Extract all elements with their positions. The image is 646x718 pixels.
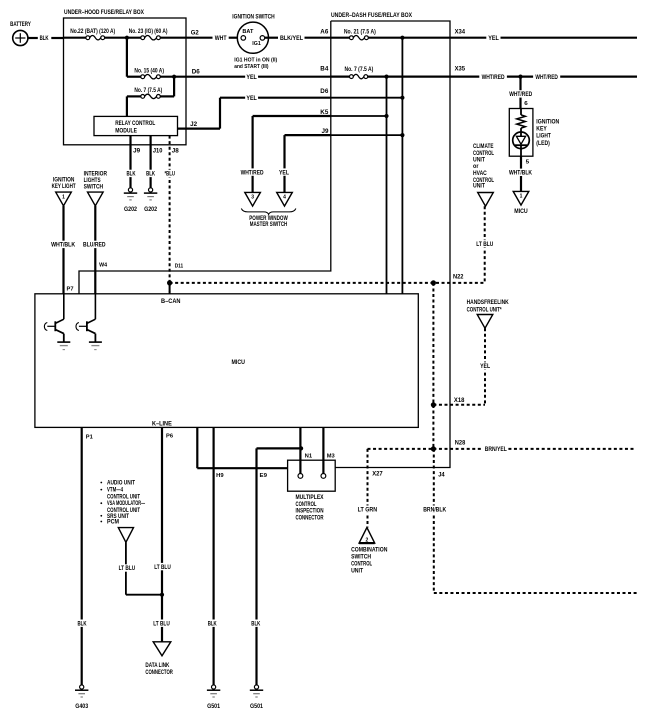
ground G501 (E9)	[254, 685, 258, 689]
fuse No.22 (BAT) (120 A)	[86, 36, 90, 40]
svg-text:UNIT: UNIT	[473, 184, 485, 190]
wire junction down to LED box	[519, 77, 521, 109]
wire fuse 21 to pin X34	[368, 37, 449, 39]
svg-text:D6: D6	[192, 69, 201, 76]
wire color BRN/BLK	[422, 506, 447, 513]
svg-text:G501: G501	[250, 704, 264, 710]
svg-text:WHT: WHT	[215, 35, 227, 42]
svg-text:LIGHT: LIGHT	[536, 134, 551, 140]
svg-text:HVAC: HVAC	[473, 171, 487, 177]
svg-text:No. 15 (40 A): No. 15 (40 A)	[134, 68, 164, 74]
junction D6 node	[400, 96, 404, 100]
wire fuse 7 left side	[127, 95, 141, 97]
wire fuse 22 to fuse 23	[105, 37, 141, 39]
svg-text:WHT/RED: WHT/RED	[535, 74, 558, 81]
wire color WHT/BLK below LED	[508, 169, 534, 176]
wire A6 to fuse 21	[331, 37, 350, 39]
svg-text:*BLU: *BLU	[164, 171, 175, 178]
svg-text:G2: G2	[191, 30, 200, 37]
svg-text:RELAY CONTROL: RELAY CONTROL	[115, 121, 155, 127]
svg-text:WHT/BLK: WHT/BLK	[51, 242, 75, 249]
fuse No.15 (40 A)	[141, 75, 145, 79]
connector triangle 3	[245, 192, 261, 206]
brace power window master switch	[241, 209, 296, 215]
svg-text:J8: J8	[172, 148, 180, 154]
svg-text:G403: G403	[75, 704, 89, 710]
wire WHT/RED continue to right	[560, 75, 637, 77]
svg-text:and START (III): and START (III)	[234, 64, 268, 70]
ground G202 (J9)	[128, 188, 132, 192]
svg-text:3: 3	[251, 195, 254, 201]
junction fuse 15 output node	[172, 75, 176, 79]
wire color YEL on J9 wire	[278, 168, 290, 175]
svg-text:CONTROL: CONTROL	[296, 502, 317, 508]
svg-text:BLK/YEL: BLK/YEL	[280, 35, 303, 42]
svg-text:5: 5	[526, 160, 530, 166]
wire M3 into connector	[322, 427, 324, 473]
wire to fuse 15	[127, 76, 141, 78]
junction E9 node on N1 wire	[299, 446, 303, 450]
svg-text:N1: N1	[305, 454, 313, 460]
svg-text:CONTROL: CONTROL	[473, 151, 494, 157]
wire BRN/YEL dashed right	[433, 448, 482, 450]
wire junction down to fuse 7 row	[173, 77, 175, 97]
wire B4 to fuse 7	[331, 75, 350, 77]
svg-text:No. 7 (7.5 A): No. 7 (7.5 A)	[345, 67, 374, 73]
svg-text:1: 1	[62, 194, 65, 200]
svg-text:YEL: YEL	[246, 74, 257, 81]
wire X35 to second label	[507, 75, 533, 77]
wire BRN/BLK dashed down from J4	[433, 449, 435, 593]
svg-text:J10: J10	[153, 148, 163, 154]
svg-text:IGNITION: IGNITION	[536, 119, 559, 125]
wire BRN/BLK dashed bottom to edge	[434, 592, 637, 594]
svg-text:YEL: YEL	[488, 35, 499, 42]
connector triangle 4	[277, 192, 293, 206]
svg-text:WHT/RED: WHT/RED	[482, 74, 505, 81]
wire dashed N28 to X27 branch	[368, 448, 434, 450]
svg-text:SWITCH: SWITCH	[84, 184, 104, 190]
relay control module	[94, 116, 178, 135]
wire K5 out to left	[253, 115, 331, 117]
ignition key light LED box	[509, 109, 533, 157]
svg-text:LT GRN: LT GRN	[358, 506, 378, 513]
wire BLU/RED interior lights switch to MICU W4	[94, 206, 96, 294]
wire audio units down	[125, 542, 127, 594]
svg-text:MODULE: MODULE	[115, 128, 137, 134]
svg-text:UNDER–HOOD FUSE/RELAY BOX: UNDER–HOOD FUSE/RELAY BOX	[64, 9, 145, 16]
svg-text:No.22 (BAT) (120 A): No.22 (BAT) (120 A)	[70, 29, 115, 35]
terminal M3	[321, 474, 326, 479]
svg-text:YEL: YEL	[480, 363, 490, 370]
svg-text:G501: G501	[207, 704, 221, 710]
wire dashed trunk N22 to N28	[432, 283, 434, 449]
connector triangle 2 combination switch	[359, 528, 375, 544]
wire battery to BLK label	[28, 37, 38, 39]
transistor Q1	[63, 294, 65, 319]
wire relay J10 to ground	[150, 136, 152, 188]
svg-text:B–CAN: B–CAN	[161, 299, 181, 305]
junction J9 node	[400, 133, 404, 137]
ground of transistor Q1	[57, 341, 70, 343]
wire X35 WHT/RED out	[450, 75, 480, 77]
wire LED box to triangle 1	[520, 156, 522, 191]
wire J2 up	[219, 98, 221, 129]
wire G2 to WHT label	[186, 37, 213, 39]
junction LT BLU node	[160, 593, 164, 597]
svg-text:UNIT: UNIT	[351, 568, 363, 574]
wire internal vertical from fuse 21 to MICU	[401, 38, 403, 294]
svg-text:IGNITION: IGNITION	[53, 178, 75, 184]
node N28 junction	[431, 446, 436, 451]
svg-text:BATTERY: BATTERY	[10, 21, 31, 28]
svg-text:MULTIPLEX: MULTIPLEX	[296, 495, 324, 501]
svg-text:6: 6	[524, 101, 528, 107]
battery	[13, 30, 28, 45]
transistor Q2	[94, 294, 96, 319]
wire color LT BLU on P6 upper	[153, 563, 172, 570]
wire junction down to fuse 15 row	[126, 38, 128, 77]
connector triangle climate control	[478, 193, 494, 207]
svg-text:SWITCH: SWITCH	[351, 555, 371, 561]
svg-text:UNIT: UNIT	[473, 157, 485, 163]
wire color LT BLU audio branch	[117, 564, 136, 571]
wire color LT GRN	[356, 506, 378, 513]
svg-text:BLK: BLK	[208, 620, 217, 627]
svg-text:INSPECTION: INSPECTION	[296, 509, 324, 515]
svg-text:P7: P7	[67, 286, 74, 292]
fuse No.21 (7.5 A)	[350, 36, 354, 40]
svg-text:PCM: PCM	[107, 520, 119, 526]
wire LT BLU dashed climate to N22	[484, 206, 486, 283]
wire color BLK on J10	[145, 170, 156, 177]
svg-text:BAT: BAT	[242, 29, 253, 35]
wire J2 from relay module	[178, 128, 221, 130]
wire N1 into connector	[299, 427, 301, 473]
wire E9 branch from N1 wire	[257, 447, 302, 449]
wire J9 down to triangle 4	[283, 135, 285, 193]
fuse No.7 (7.5 A) under-dash	[350, 75, 354, 79]
multiplex control inspection connector box	[288, 460, 336, 491]
svg-text:H9: H9	[216, 473, 224, 479]
svg-text:KEY: KEY	[536, 127, 547, 133]
svg-text:CONNECTOR: CONNECTOR	[296, 515, 324, 521]
svg-text:LT BLU: LT BLU	[119, 565, 136, 572]
wire dashed X18 branch	[433, 404, 485, 406]
svg-text:VSA MODULATOR—: VSA MODULATOR—	[107, 501, 145, 507]
under-dash fuse/relay box outline	[331, 21, 450, 468]
fuse No.7 (7.5 A) under-hood	[141, 95, 145, 99]
svg-text:WHT/BLK: WHT/BLK	[509, 170, 533, 177]
connector triangle 1 MICU	[513, 191, 529, 205]
wire color LT BLU climate	[475, 240, 494, 247]
wire color LT BLU on P6 lower	[152, 620, 171, 627]
svg-text:W4: W4	[99, 262, 108, 268]
wire X34 YEL continue to right	[501, 37, 638, 39]
svg-text:No. 23 (IG) (60 A): No. 23 (IG) (60 A)	[129, 29, 168, 35]
svg-text:IGNITION SWITCH: IGNITION SWITCH	[232, 13, 275, 20]
wire pin D6 row to vertical	[331, 97, 403, 99]
ground G501 (H9)	[212, 685, 216, 689]
svg-text:BLU/RED: BLU/RED	[83, 242, 106, 249]
svg-text:CONNECTOR: CONNECTOR	[145, 670, 173, 676]
wire J8 *BLU dashed down to MICU D11	[169, 136, 171, 294]
wire color BLK on H9	[207, 620, 218, 627]
wire color BLU/RED	[82, 241, 107, 248]
wire color WHT/RED on K5 wire	[239, 168, 264, 175]
wire internal vertical from fuse 7 to MICU	[386, 77, 388, 294]
connector triangle ignition key light	[56, 192, 72, 206]
svg-text:4: 4	[283, 195, 286, 201]
svg-text:KEY LIGHT: KEY LIGHT	[52, 184, 76, 190]
junction fuse 21 node	[400, 36, 404, 40]
svg-text:X27: X27	[372, 472, 383, 478]
svg-text:M3: M3	[327, 454, 336, 460]
audio unit list	[100, 482, 102, 484]
fuse No.23 (IG) (60 A)	[141, 36, 145, 40]
svg-text:X18: X18	[454, 398, 465, 404]
svg-text:G202: G202	[144, 207, 158, 213]
svg-text:BLK: BLK	[127, 171, 136, 178]
svg-text:WHT/RED: WHT/RED	[241, 169, 264, 176]
svg-text:X35: X35	[455, 67, 466, 73]
svg-text:No. 7 (7.5 A): No. 7 (7.5 A)	[134, 88, 162, 94]
wire color *BLU on J8	[163, 170, 176, 177]
svg-text:AUDIO UNIT: AUDIO UNIT	[107, 481, 135, 487]
ground of transistor Q2	[89, 341, 102, 343]
wire color WHT/RED on LED branch	[508, 90, 533, 97]
svg-text:2: 2	[366, 538, 369, 544]
wire BLK/YEL to under-dash pin A6	[305, 37, 331, 39]
wire YEL dashed handsfreelink down	[484, 328, 486, 405]
svg-text:G202: G202	[124, 207, 138, 213]
svg-text:or: or	[473, 164, 479, 170]
svg-text:MICU: MICU	[232, 360, 246, 366]
svg-text:COMBINATION: COMBINATION	[351, 548, 387, 554]
ignition switch	[237, 22, 268, 53]
wire relay J9 to ground	[129, 136, 131, 188]
wire fuse 7 to pin X35	[368, 75, 450, 77]
svg-text:LT BLU: LT BLU	[154, 564, 171, 571]
svg-text:CONTROL UNIT: CONTROL UNIT	[107, 494, 140, 500]
svg-text:VTM—4: VTM—4	[107, 488, 123, 494]
svg-text:No. 21 (7.5 A): No. 21 (7.5 A)	[344, 29, 376, 35]
svg-text:BLK: BLK	[146, 171, 155, 178]
under-hood fuse/relay box	[64, 18, 187, 145]
wire pin J9 row to vertical	[331, 134, 403, 136]
svg-text:IG1 HOT in ON (II): IG1 HOT in ON (II)	[234, 57, 277, 63]
svg-text:1: 1	[520, 194, 523, 200]
wire H9 BLK down to G501	[213, 427, 215, 685]
svg-text:LIGHTS: LIGHTS	[84, 178, 101, 184]
svg-text:CONTROL UNIT*: CONTROL UNIT*	[467, 307, 502, 313]
wire WHT/BLK ignition key light to MICU P7	[62, 206, 64, 294]
wire P1 BLK down to G403	[81, 427, 83, 685]
wire color YEL on D6-B4 wire	[245, 73, 258, 80]
wire P6 LT BLU down to data link connector	[161, 427, 163, 641]
wire color BLK on E9	[250, 620, 261, 627]
svg-text:J2: J2	[190, 121, 198, 128]
svg-text:CONTROL: CONTROL	[351, 562, 372, 568]
svg-text:P1: P1	[86, 435, 94, 441]
svg-text:J9: J9	[133, 148, 141, 154]
wire J2 to under-dash pin D6 (YEL)	[220, 97, 331, 99]
wire D11 dashed into MICU	[169, 283, 171, 294]
resistor inside LED box	[520, 108, 522, 115]
wire audio units to P6 junction	[126, 594, 162, 596]
svg-text:A6: A6	[320, 29, 329, 35]
wire K5 down to triangle 3	[252, 116, 254, 193]
wire fuse 7 right side	[160, 95, 174, 97]
svg-text:CLIMATE: CLIMATE	[473, 144, 494, 150]
terminal N1	[298, 474, 303, 479]
svg-text:BRN/BLK: BRN/BLK	[423, 506, 446, 513]
wire LT GRN dashed down	[367, 449, 369, 528]
wire color YEL handsfreelink	[479, 362, 491, 369]
svg-text:D6: D6	[320, 89, 329, 95]
svg-text:K–LINE: K–LINE	[152, 422, 172, 428]
wire B-CAN dashed bus	[170, 282, 485, 284]
ground G202 (J10)	[149, 188, 153, 192]
node X18 junction	[431, 402, 436, 407]
svg-text:IG1: IG1	[252, 41, 261, 47]
MICU box	[35, 294, 418, 428]
svg-text:YEL: YEL	[246, 95, 257, 102]
svg-text:LT BLU: LT BLU	[153, 620, 170, 627]
wire BRN/YEL dashed to edge	[508, 448, 636, 450]
wire X34 YEL out	[450, 37, 487, 39]
svg-text:P6: P6	[166, 434, 174, 440]
svg-text:BLK: BLK	[78, 620, 87, 627]
wire fuse 15 to pin D6	[160, 76, 186, 78]
ground G403	[80, 685, 84, 689]
wire YEL from under-hood D6 to under-dash B4	[186, 76, 331, 78]
connector triangle interior lights switch	[88, 192, 104, 206]
wire fuse 23 to pin G2	[160, 37, 186, 39]
junction main power node	[125, 36, 129, 40]
wire E9 BLK down to G501	[255, 448, 257, 685]
junction fuse 7 node	[384, 75, 388, 79]
wire J9 out to left	[285, 134, 331, 136]
svg-text:B4: B4	[320, 67, 329, 73]
svg-text:X34: X34	[455, 29, 466, 35]
junction WHT/RED node	[518, 75, 522, 79]
wire color WHT/BLK	[50, 241, 76, 248]
svg-text:BRN/YEL: BRN/YEL	[485, 446, 507, 453]
svg-text:N22: N22	[453, 275, 464, 281]
svg-text:MICU: MICU	[514, 209, 528, 215]
LED symbol	[520, 128, 522, 136]
svg-text:MASTER SWITCH: MASTER SWITCH	[250, 222, 288, 228]
svg-text:BLK: BLK	[40, 35, 49, 42]
wire color BLK on P1	[76, 620, 87, 627]
svg-text:UNDER–DASH FUSE/RELAY BOX: UNDER–DASH FUSE/RELAY BOX	[331, 12, 413, 19]
svg-text:D11: D11	[175, 263, 184, 269]
wire BLK label to under-hood box	[51, 37, 63, 39]
connector triangle audio units	[118, 528, 133, 543]
svg-text:HANDSFREELINK: HANDSFREELINK	[467, 300, 510, 306]
svg-text:INTERIOR: INTERIOR	[84, 171, 108, 177]
wire down to relay control module	[126, 96, 128, 116]
wire color YEL on J2-D6 wire	[245, 94, 258, 101]
svg-text:DATA LINK: DATA LINK	[145, 663, 170, 669]
connector triangle handsfreelink	[477, 315, 493, 329]
svg-text:J9: J9	[322, 129, 330, 135]
wire color BLK on J9	[125, 170, 136, 177]
wire MICU to multiplex connector right	[197, 467, 287, 469]
junction K5 node	[384, 114, 388, 118]
wire ignition switch to BLK/YEL	[265, 37, 278, 39]
connector triangle data link connector	[153, 642, 171, 656]
svg-text:LT BLU: LT BLU	[476, 241, 493, 248]
wire WHT to ignition switch	[229, 37, 238, 39]
svg-text:(LED): (LED)	[536, 141, 550, 147]
svg-text:E9: E9	[260, 473, 268, 479]
wire MICU to multiplex connector down	[196, 427, 198, 468]
wire box edge to fuse 22	[64, 37, 86, 39]
wire pin K5 row to vertical	[331, 115, 387, 117]
svg-text:WHT/RED: WHT/RED	[509, 91, 532, 98]
svg-text:BLK: BLK	[251, 620, 260, 627]
svg-text:N28: N28	[455, 440, 466, 446]
svg-text:YEL: YEL	[279, 169, 289, 176]
node D11 junction	[167, 280, 172, 285]
node N22 junction	[431, 280, 436, 285]
svg-text:J4: J4	[438, 473, 445, 479]
